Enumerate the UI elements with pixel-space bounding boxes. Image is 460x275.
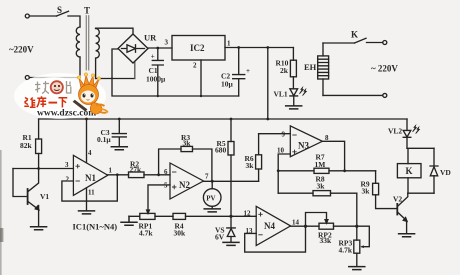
wire bridge + output [148,47,172,49]
svg-text:4.7k: 4.7k [139,229,153,238]
node dot rail pin4 [85,118,88,121]
node dot N3 out fb [343,169,346,172]
mascot leg [101,109,108,113]
N4 minus sign [258,234,262,236]
capacitor C3 [112,119,126,146]
node dot R1 V1 [37,167,40,170]
V1 emitter arrow [35,206,39,210]
watermark char zhao [35,81,49,94]
node dot rail R5 [230,118,233,121]
svg-text:9: 9 [282,131,286,139]
wire minus bus [112,78,239,96]
resistor R8 [313,191,331,196]
ground VL1 [286,106,302,109]
node dot C1 top [156,47,159,50]
svg-text:3k: 3k [183,139,192,148]
wire R8 drop [356,193,358,240]
potentiometer RP3 [354,240,360,253]
svg-text:T: T [84,6,90,16]
wire N2 output [204,180,259,182]
RP3 bottom wire [356,253,358,266]
watermark red text yi [49,102,58,104]
capacitor C2 [233,48,245,97]
wire N3 output [322,141,344,171]
wire to terminal [367,42,383,44]
svg-text:~ 220V: ~ 220V [371,64,398,74]
ground C3 [111,147,127,150]
svg-text:6: 6 [164,168,168,176]
meter PV [211,181,213,208]
op-amp N3 [290,126,322,157]
ground V2 [399,234,415,237]
svg-text:2k: 2k [280,66,289,75]
node dot rail C3 [118,118,121,121]
IC2 pin2 wire [200,60,202,96]
ground RP1 [121,216,137,225]
relay coil K [407,148,434,193]
ground N1 [79,211,95,214]
wire EH top to switch K [323,42,355,44]
svg-text:N2: N2 [179,180,190,190]
page edge smudge [0,150,2,275]
svg-text:3: 3 [165,39,169,47]
svg-text:3k: 3k [362,187,371,196]
wire N1 output [108,174,129,176]
R8 line [278,192,357,194]
zener VS [227,216,235,242]
wire node A to N1 [13,168,73,170]
resistor R2 [129,172,145,178]
watermark red text xia [59,98,68,108]
R7 feedback line [278,170,375,172]
svg-text:IC1(N1~N4): IC1(N1~N4) [73,222,118,232]
node dot C2 top [237,46,240,49]
wire [29,57,80,78]
op-amp N2 [170,163,204,199]
wire secondary bottom [96,78,135,80]
svg-text:3k: 3k [317,182,326,191]
svg-text:8: 8 [325,134,329,142]
svg-text:+: + [151,53,155,61]
resistor R9 [376,171,397,209]
RP3 wiper wire [357,226,370,247]
node dot VS ref [229,215,232,218]
resistor R4 [173,213,186,219]
svg-text:1: 1 [109,167,113,175]
svg-text:2: 2 [193,62,197,70]
svg-text:PV: PV [206,195,215,203]
N3 plus sign [292,150,296,154]
mascot eyes [83,94,86,98]
wire [68,16,80,27]
mascot head [79,85,99,105]
wire R2 to N2 [144,174,170,176]
bridge diode symbol [122,45,145,52]
svg-text:680: 680 [215,146,227,155]
op-amp N1 [73,155,107,195]
resistor R1 [38,119,40,169]
potentiometer RP2 [319,223,334,229]
wire secondary top to bridge [96,28,133,34]
wire bridge bottom corner [134,62,136,79]
svg-text:6V: 6V [215,233,225,242]
switch S [57,11,69,16]
svg-text:VL1: VL1 [274,90,288,99]
N3 minus sign [292,134,296,136]
switch K blade [355,38,367,43]
RP1 wiper arrow [147,210,150,213]
svg-text:EH: EH [304,62,317,72]
ground RP3 [349,267,365,270]
transformer T core [86,16,89,71]
resistor R3 [181,146,193,151]
mascot arm [96,104,107,112]
node dot +V drop [266,46,269,49]
watermark red text wei [24,98,35,108]
svg-text:33k: 33k [320,236,333,245]
svg-text:~220V: ~220V [9,45,34,55]
op-amp N4 [256,206,290,245]
V2 emitter arrow [403,218,407,222]
node dot rail drop [266,118,269,121]
svg-text:UR: UR [144,33,157,43]
svg-text:0.1μ: 0.1μ [97,135,111,144]
svg-text:K: K [406,166,413,176]
flash arrows VL2 [412,124,417,132]
node dot N1 out [116,173,119,176]
bridge rectifier UR [118,34,148,63]
node dot N4 out [304,225,307,228]
ground PV [204,209,220,212]
N3 pin10 wire [278,154,290,193]
watermark glow [14,73,106,119]
N2 minus sign [172,171,176,173]
wire reference net [129,215,256,217]
N1 plus sign [76,164,80,168]
capacitor C1 [152,48,163,96]
svg-text:N4: N4 [264,221,275,231]
svg-text:14: 14 [292,219,300,227]
node dot R7 pin10 [277,169,280,172]
IC2 regulator box [172,36,225,61]
svg-text:13: 13 [246,227,254,235]
N4 plus sign [258,212,262,216]
wire AC to bridge left corner [112,49,118,78]
svg-text:VL2: VL2 [388,127,402,136]
svg-text:4: 4 [88,149,92,157]
resistor R10 [292,48,294,89]
svg-text:N1: N1 [85,173,96,183]
resistor R7 [314,168,329,173]
diode VD [430,148,438,193]
svg-text:27k: 27k [130,165,143,174]
wire R6 to N3 pin9 [259,133,291,135]
svg-text:1000μ: 1000μ [146,75,166,84]
N2 plus sign [172,185,176,189]
svg-text:3: 3 [65,161,69,169]
terminal K circle [383,41,387,45]
svg-text:K: K [351,30,358,40]
wire [29,15,56,17]
svg-text:30k: 30k [174,229,187,238]
ground VS [223,242,239,245]
wire +V down to op-amp rail [267,48,269,120]
svg-text:1M: 1M [315,160,326,169]
node dot RP3 top [355,225,358,228]
svg-text:S: S [57,5,62,15]
N4 feedback wire pin13 [245,226,306,252]
node dot N2 out [211,180,214,183]
transformer T secondary [96,29,100,79]
node dot bus C1 [157,95,159,97]
node dot bus pin2 [200,95,202,97]
svg-text:5: 5 [164,182,168,190]
RP2 wiper arrow [325,220,328,223]
RP2 wiper wire [306,213,327,227]
node dot R3 left [157,173,160,176]
svg-text:IC2: IC2 [190,43,205,53]
resistor R5 [230,119,232,216]
RP3 wiper arrow [360,245,364,248]
watermark emblem [50,80,64,94]
svg-text:12: 12 [244,210,252,218]
svg-text:11: 11 [88,189,95,197]
mascot pen [73,100,88,112]
terminal mains bottom [25,76,29,80]
svg-text:1: 1 [227,40,231,48]
svg-text:10μ: 10μ [221,80,234,89]
svg-text:82k: 82k [20,141,33,150]
svg-text:3k: 3k [246,161,255,170]
transistor V2 [396,204,398,215]
N1 minus sign [76,180,80,182]
svg-text:10: 10 [277,147,285,155]
LED VL2 [403,119,411,148]
N1 pin11 wire [86,188,88,211]
svg-text:VD: VD [440,168,451,177]
svg-text:2: 2 [66,176,70,184]
terminal mains top [25,14,29,18]
wire N4 output [291,225,319,227]
svg-text:V1: V1 [40,192,49,201]
watermark char pian [67,81,72,94]
N1 feedback wire pin2 [62,175,117,201]
LED VL1 [290,89,298,106]
flash arrows VL1 [299,86,304,94]
resistor R6 [258,134,260,182]
svg-text:+: + [246,67,250,75]
R3 feedback loop [159,149,212,181]
ground V1 [31,227,47,230]
N1 pin4 wire [86,119,88,163]
heater EH [322,43,324,95]
N2 pin5 wire to RP1 wiper [148,185,170,211]
mascot body [90,103,102,114]
transistor V1 [13,169,27,197]
mascot crown [79,75,99,88]
wire IC2 output [225,47,293,49]
terminal bottom right circle [383,93,387,97]
svg-text:4.7k: 4.7k [339,246,353,255]
svg-text:N3: N3 [298,141,309,151]
svg-text:7: 7 [205,173,209,181]
potentiometer RP1 [140,213,155,219]
svg-text:www.dzsc.com: www.dzsc.com [37,109,96,119]
watermark red text ku [37,96,46,107]
svg-text:V2: V2 [393,195,402,204]
transformer T primary [76,27,80,57]
wire +12V rail [39,118,407,120]
wire EH bottom [323,94,383,96]
wire RP2 to node [334,225,357,227]
